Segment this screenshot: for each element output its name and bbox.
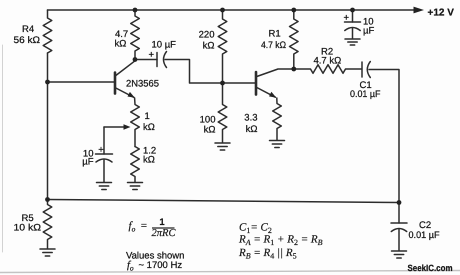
capacitor C1 <box>362 62 370 78</box>
svg-text:10 µF: 10 µF <box>152 40 177 51</box>
resistor 1.2k <box>131 147 140 183</box>
svg-text:kΩ: kΩ <box>143 122 155 133</box>
svg-text:56 kΩ: 56 kΩ <box>14 35 41 46</box>
svg-text:1: 1 <box>159 217 165 228</box>
svg-text:kΩ: kΩ <box>115 39 127 50</box>
svg-text:+: + <box>149 50 155 61</box>
svg-text:2πRC: 2πRC <box>152 228 177 239</box>
svg-text:SeekIC.com: SeekIC.com <box>408 263 453 273</box>
svg-text:3.3: 3.3 <box>244 113 257 124</box>
capacitor C2 <box>391 203 407 251</box>
node dot rail/bypass cap <box>350 8 355 13</box>
scan artifact left faint line <box>2 45 4 252</box>
capacitor 10uF bypass (top right) <box>345 10 361 39</box>
ground (1.2k) <box>128 183 143 190</box>
svg-text:R1: R1 <box>269 29 281 40</box>
svg-text:RA = R1 + R2 = RB: RA = R1 + R2 = RB <box>238 234 323 248</box>
wire Q1 base <box>48 81 114 83</box>
ground (10uF bypass) <box>345 39 360 45</box>
pot wiper arrow <box>104 124 131 129</box>
svg-text:R4: R4 <box>22 24 34 35</box>
svg-text:fo =: fo = <box>129 220 148 234</box>
svg-text:220: 220 <box>199 30 215 41</box>
ground (R5) <box>40 249 55 256</box>
wire C1 to output node <box>369 70 399 203</box>
wire +12V power rail <box>48 9 416 11</box>
transistor Q2 <box>256 69 294 98</box>
svg-text:kΩ: kΩ <box>246 124 258 135</box>
svg-text:4.7 kΩ: 4.7 kΩ <box>261 40 286 51</box>
node dot rail/4.7k <box>133 8 138 13</box>
resistor R1 <box>289 10 298 69</box>
wire left vertical (R4 bottom to R5 node) <box>47 53 49 201</box>
wire feedback bottom <box>48 200 400 203</box>
ground (C2) <box>392 251 407 258</box>
resistor R2 <box>294 65 362 74</box>
transistor Q1 2N3565 <box>115 61 135 98</box>
svg-text:kΩ: kΩ <box>204 125 216 136</box>
svg-text:+: + <box>98 145 104 156</box>
wire coupling cap to 220k/100k node <box>165 60 223 84</box>
resistor R5 <box>43 200 52 249</box>
resistor 100k <box>218 83 227 143</box>
wire wiper to bypass cap <box>103 127 105 154</box>
resistor 1k (pot element) <box>131 98 140 147</box>
svg-text:~ 1700 Hz: ~ 1700 Hz <box>139 260 183 271</box>
node dot Q1 collector <box>133 57 138 62</box>
resistor 3.3k <box>273 98 282 140</box>
node dot rail/R1 <box>291 8 296 13</box>
scan artifact bottom faint line <box>0 271 460 273</box>
ground (3.3k) <box>270 141 285 148</box>
svg-text:4.7 kΩ: 4.7 kΩ <box>314 56 342 67</box>
node dot R5/feedback <box>45 197 50 202</box>
svg-text:1: 1 <box>145 111 150 122</box>
resistor R4 <box>43 10 52 53</box>
capacitor 10uF coupling <box>135 52 167 68</box>
svg-text:µF: µF <box>82 157 93 168</box>
svg-text:+12 V: +12 V <box>428 8 455 19</box>
ground (emitter bypass cap) <box>97 183 112 190</box>
node dot C2/output <box>397 200 402 205</box>
node dot R4/Q1 base <box>45 80 50 85</box>
formula fo = 1/2piRC <box>129 217 177 239</box>
svg-text:2N3565: 2N3565 <box>126 79 159 90</box>
capacitor 10uF (emitter bypass) <box>96 154 113 182</box>
svg-text:+: + <box>344 13 350 24</box>
svg-text:kΩ: kΩ <box>203 41 215 52</box>
power arrowhead <box>414 7 425 14</box>
node dot rail/220k <box>220 8 225 13</box>
svg-text:0.01 µF: 0.01 µF <box>409 230 440 241</box>
svg-text:µF: µF <box>363 26 374 37</box>
resistor 220k <box>218 10 227 83</box>
ground (100k) <box>215 143 230 150</box>
node dot Q2 collector/R1/R2 <box>291 67 296 72</box>
node dot 220k/100k/Q2 base <box>220 81 225 86</box>
svg-text:kΩ: kΩ <box>143 155 155 166</box>
resistor 4.7k (Q1 collector load) <box>131 10 140 60</box>
svg-text:10 kΩ: 10 kΩ <box>14 223 42 234</box>
svg-text:0.01 µF: 0.01 µF <box>350 89 381 100</box>
wire Q2 base <box>223 82 255 84</box>
